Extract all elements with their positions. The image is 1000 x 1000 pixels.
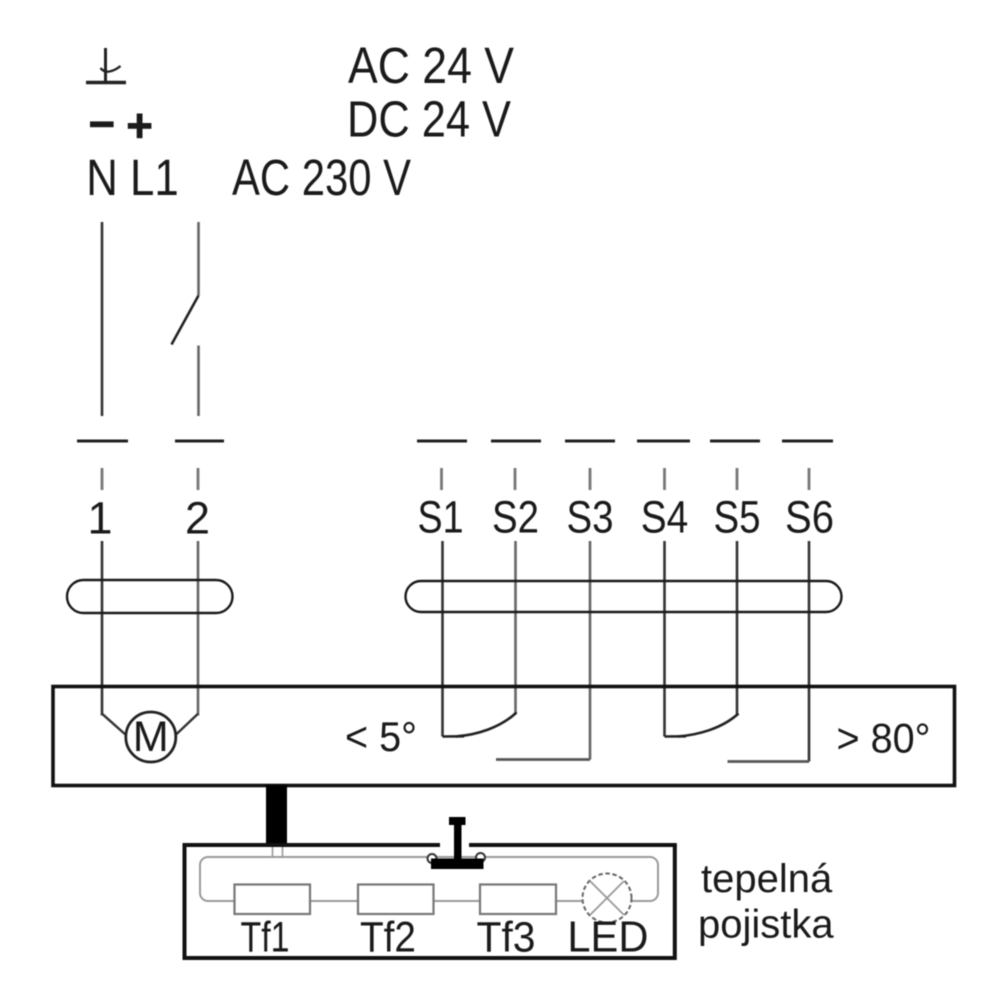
thick supply wire (266, 785, 287, 846)
terminal dash S6 (782, 440, 833, 443)
thermal fuse Tf2 (358, 885, 434, 915)
tick S3 (589, 468, 592, 490)
svg-text:S3: S3 (567, 492, 614, 543)
tick S1 (440, 468, 443, 490)
wire L1 lower (197, 346, 200, 417)
switch S3 foot (496, 758, 590, 761)
svg-text:Tf3: Tf3 (477, 914, 536, 962)
terminal dash 1 (77, 440, 128, 443)
minus symbol (90, 121, 114, 127)
thermal fuse Tf1 (235, 885, 311, 915)
switch S6 foot (728, 760, 810, 763)
wire 1 lower (101, 541, 104, 716)
tick S2 (514, 468, 517, 490)
terminal dash 2 (175, 440, 224, 443)
svg-text:AC 230 V: AC 230 V (232, 149, 411, 206)
wire L1 upper (197, 222, 200, 296)
switch S4 foot (665, 735, 687, 738)
switch S1-S2 blade (456, 713, 517, 737)
svg-text:S6: S6 (785, 492, 834, 543)
push button cap (449, 817, 466, 825)
wire S5 (736, 541, 739, 715)
wire 2 lower (197, 541, 200, 716)
wire V to motor left (102, 714, 127, 736)
tick S5 (736, 468, 739, 490)
push button stem (454, 825, 462, 861)
svg-text:tepelná: tepelná (701, 857, 833, 901)
thermal fuse box sides and bottom (185, 845, 675, 958)
svg-text:2: 2 (185, 493, 210, 544)
internal circuit loop (200, 857, 658, 901)
push button contact right (476, 853, 485, 862)
tick 2 (197, 468, 200, 490)
wire S4 (663, 541, 666, 737)
tick S4 (663, 468, 666, 490)
push button bridge bar (431, 859, 484, 870)
svg-text:LED: LED (567, 913, 648, 962)
svg-text:S2: S2 (492, 492, 539, 543)
svg-text:1: 1 (87, 493, 112, 544)
ground symbol (86, 48, 126, 83)
tick 1 (101, 468, 104, 490)
wire S6 (808, 541, 811, 762)
svg-text:Tf1: Tf1 (241, 914, 290, 962)
wire N upper (101, 222, 104, 416)
svg-text:N L1: N L1 (86, 149, 179, 206)
thin connector left (272, 845, 274, 858)
motor M1 circle (126, 712, 176, 762)
cable capsule left (67, 580, 233, 613)
tick S6 (808, 468, 811, 490)
thin connector right (282, 845, 284, 858)
svg-text:pojistka: pojistka (698, 903, 834, 947)
svg-text:DC 24 V: DC 24 V (347, 91, 511, 148)
wire V to motor right (175, 714, 198, 736)
wire S3 (589, 541, 592, 760)
thermal fuse box top edge right (469, 843, 677, 847)
svg-text:S4: S4 (641, 492, 689, 543)
cable capsule right (406, 581, 842, 612)
terminal dash S4 (637, 440, 690, 443)
svg-text:AC 24 V: AC 24 V (348, 37, 514, 94)
svg-text:< 5°: < 5° (345, 713, 417, 760)
svg-text:Tf2: Tf2 (360, 914, 416, 962)
thermal fuse Tf3 (480, 885, 556, 915)
LED lamp circle (583, 874, 632, 923)
svg-text:M: M (133, 713, 169, 761)
plus symbol (128, 114, 152, 139)
LED lamp cross (590, 881, 624, 915)
wire S1 (441, 541, 444, 737)
terminal dash S1 (417, 440, 467, 443)
svg-text:S5: S5 (714, 492, 761, 543)
svg-text:S1: S1 (418, 492, 464, 543)
switch blade on L1 (172, 296, 199, 345)
switch S1 foot (443, 735, 465, 738)
switch S4-S5 blade (678, 714, 739, 737)
wire S2 (514, 541, 517, 714)
thermal fuse box top edge left (183, 843, 441, 847)
terminal dash S3 (565, 440, 615, 443)
push button contact left (428, 854, 437, 863)
terminal dash S5 (710, 440, 760, 443)
svg-text:> 80°: > 80° (837, 715, 931, 762)
actuator box (53, 687, 955, 786)
terminal dash S2 (491, 440, 541, 443)
